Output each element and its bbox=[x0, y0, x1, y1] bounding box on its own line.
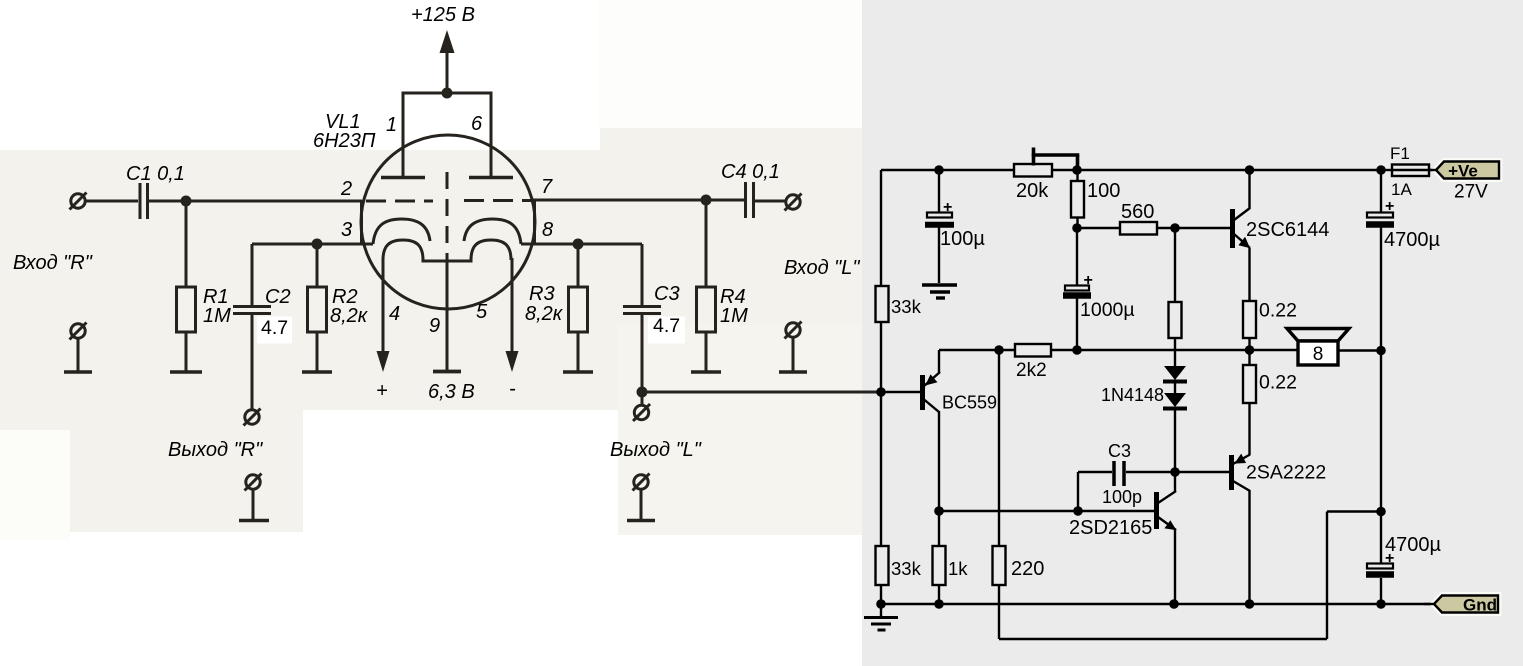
wire lower output terminal R to ground bbox=[252, 489, 255, 519]
mid rail left segment bbox=[939, 349, 1015, 351]
wire R4 to ground bbox=[705, 332, 708, 371]
svg-text:1M: 1M bbox=[203, 305, 231, 327]
svg-text:R3: R3 bbox=[529, 283, 555, 305]
wire 1k to ground rail bbox=[938, 585, 940, 604]
anode top box left vertical (pin 1) bbox=[402, 93, 405, 177]
wire lower terminal to ground bbox=[77, 338, 80, 371]
center partition dashed line bbox=[446, 172, 449, 262]
anode plate left triode bbox=[381, 176, 425, 180]
wire 100 to node bbox=[1076, 218, 1078, 229]
input terminal R bbox=[70, 193, 87, 210]
wire pin 7 row bbox=[533, 199, 744, 202]
wire 4700u upper to speaker node bbox=[1380, 227, 1382, 350]
tube right facet bbox=[533, 199, 536, 245]
capacitor 100u bbox=[925, 213, 954, 225]
node at C1/R1 junction bbox=[181, 196, 192, 207]
bootstrap vertical wire bbox=[1326, 512, 1328, 640]
svg-text:C4 0,1: C4 0,1 bbox=[721, 161, 780, 183]
capacitor 4700u upper bbox=[1366, 213, 1394, 225]
svg-text:20k: 20k bbox=[1016, 180, 1049, 202]
Gnd tag bbox=[1424, 596, 1498, 615]
svg-text:0.22: 0.22 bbox=[1259, 372, 1297, 394]
2SA2222 emitter with arrow bbox=[1233, 454, 1250, 464]
wire +Ve to 4700u top bbox=[1380, 170, 1382, 213]
2SD2165 emitter vertical bbox=[1174, 529, 1176, 604]
output terminal L bbox=[633, 404, 650, 421]
node at +125V junction bbox=[442, 88, 453, 99]
+125V supply arrow bbox=[440, 30, 455, 93]
node amplifier input bbox=[876, 387, 886, 397]
fuse F1 lead right bbox=[1429, 169, 1437, 171]
wire 220 to bootstrap bbox=[998, 585, 1000, 639]
left rail vertical bottom bbox=[880, 585, 882, 604]
node C3/diodes/base bbox=[1170, 467, 1180, 477]
capacitor C2 bbox=[233, 307, 271, 314]
node C3 left bbox=[1073, 506, 1083, 516]
svg-text:+Ve: +Ve bbox=[1448, 162, 1478, 181]
light scan patch right-mid-left bbox=[618, 325, 862, 535]
wire C2 to output terminal R bbox=[251, 315, 254, 409]
ground under R3 bbox=[563, 370, 593, 374]
svg-text:0.22: 0.22 bbox=[1259, 300, 1297, 322]
cathode arc right triode bbox=[464, 219, 521, 244]
resistor 220 bbox=[993, 546, 1006, 585]
mid rail middle segment bbox=[1051, 349, 1298, 351]
heater dome right triode bbox=[471, 240, 511, 260]
heater right leg pin 5 with arrow bbox=[506, 258, 519, 372]
resistor VAS collector load bbox=[1169, 302, 1182, 338]
bootstrap bottom wire bbox=[999, 638, 1327, 640]
svg-text:4.7: 4.7 bbox=[653, 315, 680, 337]
potentiometer 20k body bbox=[1014, 164, 1052, 177]
top supply rail bbox=[881, 169, 1381, 171]
2SC6144 emitter with arrow bbox=[1234, 234, 1250, 248]
svg-text:Gnd: Gnd bbox=[1463, 596, 1497, 615]
wire node to R1 bbox=[185, 201, 188, 287]
wire down to C2 bbox=[251, 244, 254, 305]
cathode arc left triode bbox=[373, 219, 430, 244]
resistor R1 bbox=[177, 287, 196, 332]
anode plate right triode bbox=[469, 176, 513, 180]
lower output terminal L bbox=[633, 474, 650, 491]
2SC6144 base bar bbox=[1230, 209, 1235, 248]
speaker cone trapezoid bbox=[1287, 329, 1349, 342]
svg-text:560: 560 bbox=[1121, 201, 1154, 223]
svg-text:2SD2165: 2SD2165 bbox=[1069, 517, 1152, 539]
white scan patch lower-left bbox=[0, 430, 70, 540]
wire C3 right to 2SA base bbox=[1126, 471, 1229, 473]
node 100/560/1000u bbox=[1072, 223, 1082, 233]
tube left facet bbox=[360, 200, 363, 245]
svg-text:4.7: 4.7 bbox=[261, 317, 288, 339]
wire R1 to ground bbox=[185, 332, 188, 371]
ground rail bottom bbox=[881, 603, 1434, 605]
node bootstrap junction bbox=[1376, 507, 1386, 517]
input terminal L bbox=[785, 322, 802, 339]
svg-text:Выход "L": Выход "L" bbox=[610, 439, 702, 461]
wire between diodes bbox=[1174, 383, 1176, 393]
ground under lower output terminal R bbox=[239, 519, 269, 523]
wire input R to C1 bbox=[85, 200, 138, 203]
transistor 2SC6144 collector vertical bbox=[1248, 170, 1250, 209]
wire 1k bbox=[938, 511, 940, 546]
BC559 emitter vertical bbox=[938, 350, 940, 373]
svg-text:C1 0,1: C1 0,1 bbox=[126, 163, 185, 185]
resistor 33k lower bbox=[876, 546, 889, 585]
wire speaker to output cap bbox=[1338, 349, 1381, 351]
svg-text:Вход "R": Вход "R" bbox=[13, 252, 93, 274]
svg-text:8,2к: 8,2к bbox=[525, 303, 564, 325]
potentiometer 20k wiper arm bbox=[1032, 148, 1080, 167]
capacitor C4 bbox=[746, 182, 754, 218]
capacitor C1 bbox=[140, 183, 148, 219]
node 100u top bbox=[934, 165, 944, 175]
left schematic labels bbox=[13, 4, 860, 461]
2SC6144 collector diagonal bbox=[1234, 208, 1250, 220]
wire 100u to ground bbox=[938, 227, 940, 284]
node +Ve junction bbox=[1376, 165, 1386, 175]
wire C3 left vertical bbox=[1077, 472, 1079, 511]
left schematic background bbox=[0, 0, 862, 666]
svg-text:1k: 1k bbox=[948, 558, 968, 579]
svg-text:2k2: 2k2 bbox=[1016, 360, 1047, 381]
left rail vertical middle bbox=[880, 322, 882, 546]
capacitor 1000u bbox=[1063, 286, 1091, 296]
resistor 2k2 bbox=[1015, 344, 1051, 357]
svg-text:3: 3 bbox=[341, 219, 352, 241]
wire resistor to diodes bbox=[1174, 338, 1176, 366]
svg-text:C2: C2 bbox=[265, 286, 291, 308]
wire to 100u bbox=[938, 170, 940, 213]
svg-text:F1: F1 bbox=[1390, 144, 1410, 163]
output terminal R bbox=[244, 409, 261, 426]
wire input terminal L to ground bbox=[792, 337, 795, 371]
grid dashed right (pin 7) bbox=[464, 199, 533, 202]
node at pin7/C4 bbox=[701, 195, 712, 206]
svg-text:4: 4 bbox=[389, 303, 400, 325]
transistor 2SD2165 base bar bbox=[1154, 492, 1159, 529]
node 220 top bbox=[994, 345, 1004, 355]
BC559 emitter with arrow bbox=[924, 372, 940, 386]
+Ve supply tag bbox=[1428, 162, 1499, 181]
wire 0.22 lower to 2SA emitter bbox=[1248, 403, 1250, 455]
resistor 560 bbox=[1120, 222, 1157, 235]
white patch under 4.7 left bbox=[257, 317, 292, 344]
cathode mid tap pin 9 bbox=[446, 261, 449, 370]
svg-text:+: + bbox=[1084, 272, 1093, 289]
resistor R3 bbox=[569, 287, 588, 332]
node output L bbox=[637, 387, 648, 398]
capacitor C3 100p bbox=[1114, 461, 1124, 486]
svg-text:8,2к: 8,2к bbox=[330, 305, 369, 327]
ground under input terminal L bbox=[779, 370, 807, 374]
transistor 2SA2222 base bar bbox=[1229, 455, 1234, 490]
svg-text:BC559: BC559 bbox=[942, 393, 997, 413]
2SA2222 collector vertical bbox=[1248, 490, 1250, 604]
ground under lower input terminal bbox=[64, 370, 92, 374]
node 1k top bbox=[934, 506, 944, 516]
wire 1000u to mid rail bbox=[1076, 298, 1078, 350]
svg-text:-: - bbox=[509, 378, 516, 400]
white scan patch top-middle bbox=[598, 0, 862, 128]
resistor 100 bbox=[1071, 181, 1084, 218]
wire tube output to amplifier input bbox=[642, 391, 881, 394]
white scan patch top-left bbox=[0, 0, 600, 150]
white scan patch bottom-left bbox=[0, 532, 862, 666]
svg-text:+: + bbox=[376, 380, 388, 402]
bootstrap top wire bbox=[1327, 510, 1381, 512]
svg-text:6Н23П: 6Н23П bbox=[313, 130, 376, 152]
svg-text:1000µ: 1000µ bbox=[1080, 299, 1135, 321]
svg-text:4700µ: 4700µ bbox=[1384, 229, 1440, 251]
svg-text:+: + bbox=[943, 199, 952, 216]
svg-text:C3: C3 bbox=[654, 283, 680, 305]
ground under R1 bbox=[170, 370, 202, 374]
wire 560 to 2SC6144 base bbox=[1157, 227, 1231, 229]
node 560/VAS junction bbox=[1170, 223, 1180, 233]
speaker box bbox=[1298, 341, 1338, 365]
svg-text:2: 2 bbox=[340, 178, 352, 200]
svg-text:100p: 100p bbox=[1102, 487, 1142, 507]
wire C3 to output node bbox=[641, 315, 644, 392]
wire 1000u top bbox=[1076, 228, 1078, 286]
BC559 collector vertical bbox=[938, 411, 940, 511]
terminal bar 6.3V bbox=[433, 370, 461, 374]
svg-text:6,3 В: 6,3 В bbox=[428, 381, 475, 403]
wire lower output terminal L to ground bbox=[640, 489, 643, 519]
C4 output terminal bbox=[785, 194, 802, 211]
wire down to C3 left bbox=[641, 244, 644, 305]
wire node to R4 bbox=[705, 200, 708, 287]
svg-text:7: 7 bbox=[541, 176, 553, 198]
svg-text:1M: 1M bbox=[720, 305, 748, 327]
svg-text:2SC6144: 2SC6144 bbox=[1246, 219, 1329, 241]
right schematic background bbox=[862, 0, 1523, 666]
wire R2 bbox=[316, 244, 319, 287]
node pot/100 junction bbox=[1072, 165, 1082, 175]
wire pin 8 row bbox=[521, 243, 642, 246]
driver base wire bbox=[939, 510, 1154, 512]
svg-text:9: 9 bbox=[429, 315, 440, 337]
diode D1 1N4148 bbox=[1163, 366, 1187, 382]
svg-text:8: 8 bbox=[1313, 344, 1324, 365]
node 1000u bottom bbox=[1072, 345, 1082, 355]
node 2SA2222 collector ground bbox=[1245, 599, 1255, 609]
fuse F1 lead left bbox=[1381, 169, 1392, 171]
wire diodes to 2SD2165 collector bbox=[1174, 410, 1176, 492]
ground under R4 bbox=[691, 370, 721, 374]
transistor BC559 base bar bbox=[920, 375, 925, 410]
svg-text:220: 220 bbox=[1011, 558, 1044, 580]
2SD2165 collector diagonal bbox=[1158, 491, 1176, 503]
node at pin3/R2 bbox=[312, 239, 323, 250]
wire R3 bbox=[577, 244, 580, 287]
node 2SD2165 emitter ground bbox=[1169, 599, 1179, 609]
node at pin8/R3 bbox=[573, 239, 584, 250]
svg-text:2SA2222: 2SA2222 bbox=[1246, 462, 1326, 484]
svg-text:33k: 33k bbox=[891, 296, 922, 317]
wire node to output terminal L bbox=[641, 392, 644, 405]
resistor R2 bbox=[308, 287, 327, 332]
left rail vertical upper bbox=[880, 170, 882, 286]
diode D2 1N4148 bbox=[1163, 393, 1187, 409]
lower input terminal R bbox=[70, 323, 87, 340]
node output junction bbox=[1245, 345, 1255, 355]
svg-text:1N4148: 1N4148 bbox=[1101, 385, 1164, 405]
node 2SC6144 collector bbox=[1245, 165, 1255, 175]
svg-text:8: 8 bbox=[542, 219, 553, 241]
capacitor C3 left bbox=[623, 307, 661, 314]
wire node to 560 bbox=[1077, 227, 1120, 229]
resistor R4 bbox=[697, 287, 716, 332]
fuse F1 bbox=[1392, 165, 1429, 177]
svg-text:6: 6 bbox=[471, 113, 483, 135]
svg-text:Выход "R": Выход "R" bbox=[168, 439, 263, 461]
svg-text:Вход "L": Вход "L" bbox=[784, 257, 860, 279]
right schematic labels bbox=[891, 144, 1488, 580]
node speaker right bbox=[1376, 346, 1386, 356]
grid dashed left (pin 2) bbox=[366, 200, 433, 203]
node 1k bottom bbox=[934, 599, 944, 609]
ground symbol bottom left bbox=[864, 604, 898, 630]
svg-text:+: + bbox=[1385, 550, 1394, 567]
anode top box right vertical (pin 6) bbox=[490, 93, 493, 177]
wire node to 100 bbox=[1076, 170, 1078, 181]
node 4700u ground bbox=[1376, 599, 1386, 609]
anode top box top wire bbox=[402, 92, 493, 95]
white scan patch center-bottom-left bbox=[303, 410, 618, 534]
tube VL1 envelope bbox=[361, 135, 535, 309]
ground under lower output terminal L bbox=[627, 519, 655, 523]
svg-text:C3: C3 bbox=[1108, 441, 1131, 461]
2SC6144 emitter vertical bbox=[1248, 248, 1250, 301]
wire speaker node to bootstrap node bbox=[1380, 350, 1382, 512]
heater left leg pin 4 with arrow bbox=[377, 258, 390, 372]
svg-text:1: 1 bbox=[386, 114, 397, 136]
wire C1 to pin 2 bbox=[149, 200, 362, 203]
wire C4 to output terminal bbox=[755, 200, 786, 203]
white patch under 4.7 right bbox=[648, 317, 685, 344]
heater joining bar bbox=[422, 260, 473, 263]
2SD2165 emitter with arrow bbox=[1158, 517, 1176, 530]
svg-text:1A: 1A bbox=[1391, 180, 1412, 199]
ground symbol under 100u bbox=[922, 285, 957, 298]
svg-text:33k: 33k bbox=[891, 558, 922, 579]
node ground rail left bbox=[876, 599, 886, 609]
svg-text:5: 5 bbox=[476, 301, 488, 323]
wire pin 3 row bbox=[252, 243, 373, 246]
svg-text:+125 В: +125 В bbox=[411, 4, 475, 26]
resistor 0.22 lower bbox=[1243, 365, 1256, 403]
svg-text:27V: 27V bbox=[1454, 182, 1488, 203]
wire C3 left horizontal bbox=[1078, 471, 1112, 473]
lower output terminal R bbox=[245, 474, 262, 491]
resistor 33k upper bbox=[876, 286, 889, 322]
resistor 0.22 upper bbox=[1243, 301, 1256, 338]
2SA2222 collector diagonal bbox=[1233, 481, 1250, 491]
svg-text:+: + bbox=[1385, 198, 1394, 215]
wire 0.22 upper to output bbox=[1248, 338, 1250, 365]
ground under R2 bbox=[302, 370, 332, 374]
wire node to VAS resistor bbox=[1174, 228, 1176, 302]
heater dome left triode bbox=[383, 240, 423, 260]
capacitor 4700u lower bbox=[1366, 564, 1394, 575]
wire bootstrap node to 4700u lower bbox=[1380, 512, 1382, 565]
wire R2 to ground bbox=[316, 332, 319, 371]
BC559 base wire bbox=[881, 391, 920, 393]
BC559 collector diagonal bbox=[924, 400, 939, 413]
wire 220 vertical bbox=[998, 350, 1000, 546]
svg-text:100µ: 100µ bbox=[940, 228, 985, 250]
wire R3 to ground bbox=[577, 332, 580, 371]
wire 4700u lower to ground rail bbox=[1380, 578, 1382, 604]
svg-text:100: 100 bbox=[1087, 180, 1120, 202]
resistor 1k bbox=[933, 546, 946, 585]
